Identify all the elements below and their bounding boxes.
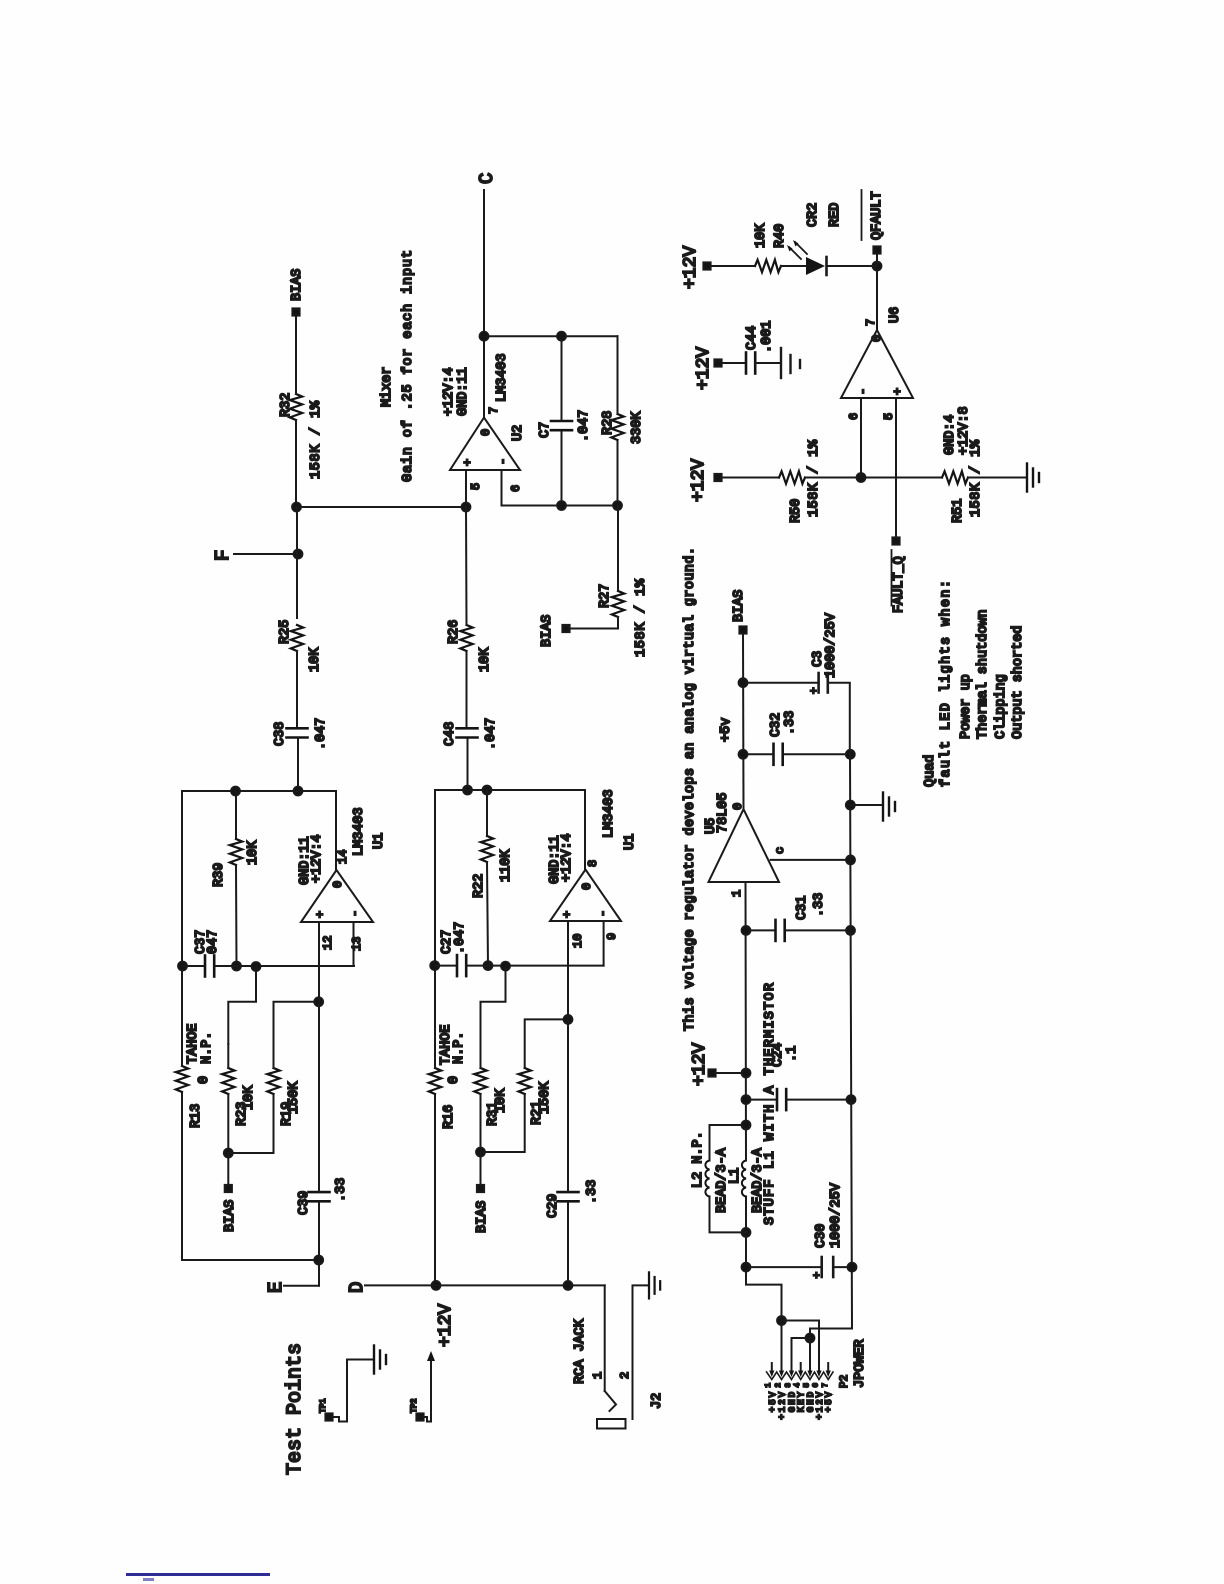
junction top rail2 / C27 line xyxy=(430,961,439,970)
junction C37 line / R23 jog xyxy=(252,962,261,971)
capacitor C30 1000/25V xyxy=(746,1182,852,1278)
junction D net / pin10 net xyxy=(564,1281,573,1290)
svg-text:U6: U6 xyxy=(888,307,903,323)
svg-text:7: 7 xyxy=(487,407,501,414)
resistor R40 10K xyxy=(754,223,788,272)
P2 pin7 stub xyxy=(827,1363,829,1370)
svg-text:Test Points: Test Points xyxy=(284,1343,307,1475)
U6 power text GND:4 +12V:8 xyxy=(943,406,972,455)
svg-text:BIAS: BIAS xyxy=(540,615,555,647)
svg-text:6: 6 xyxy=(813,1383,821,1388)
wire LED to output junction xyxy=(827,265,877,267)
P2 pin arrowheads xyxy=(769,1371,831,1378)
resistor R19 150K xyxy=(267,1068,302,1126)
junction C30/rail xyxy=(742,1263,751,1272)
svg-text:0: 0 xyxy=(870,335,884,342)
svg-text:-: - xyxy=(496,458,510,465)
svg-text:P2: P2 xyxy=(839,1375,851,1388)
svg-text:U2: U2 xyxy=(511,425,526,441)
junction F/chain xyxy=(294,550,303,559)
svg-text:5: 5 xyxy=(469,483,483,490)
junction C27 line / R31 jog xyxy=(501,962,510,971)
svg-text:7: 7 xyxy=(864,319,878,326)
wire C38 to R25 xyxy=(296,651,298,728)
test point TP2 xyxy=(410,1398,424,1420)
wire U1a feedback line xyxy=(182,790,336,792)
resistor R16 0 TAHOE N.P. xyxy=(429,1024,467,1129)
svg-text:7: 7 xyxy=(822,1383,830,1388)
svg-text:Mixer: Mixer xyxy=(380,366,395,407)
wire mixer summing bus (U2 pin 5 net) xyxy=(297,506,467,508)
wire channel2 top rail (left part) xyxy=(434,1094,436,1285)
wire U6 pin6 stub xyxy=(860,398,862,478)
svg-text:R26: R26 xyxy=(447,620,462,644)
ground (J2 shield) xyxy=(649,1272,660,1298)
svg-text:+: + xyxy=(314,911,328,918)
svg-text:FAULT_Q: FAULT_Q xyxy=(892,556,907,613)
resistor R21 150K xyxy=(519,1068,554,1125)
resistor R51 158K / 1% xyxy=(942,439,984,523)
resistor R22 110K xyxy=(472,790,514,966)
svg-text:10K: 10K xyxy=(494,1088,509,1113)
junction stage2 output / C48 chain xyxy=(463,786,472,795)
wire R31 jog xyxy=(481,966,506,1044)
node F xyxy=(212,550,298,561)
svg-text:R27: R27 xyxy=(598,584,613,608)
svg-text:+: + xyxy=(891,388,905,395)
resistor R13 0 TAHOE N.P. xyxy=(176,1023,215,1128)
junction connector ground xyxy=(806,1334,815,1343)
svg-text:+: + xyxy=(809,687,821,694)
svg-text:+12V:4: +12V:4 xyxy=(310,834,325,883)
svg-text:110K: 110K xyxy=(499,849,514,882)
svg-text:+12V: +12V xyxy=(681,246,701,289)
junction top rail / C37 line xyxy=(178,962,187,971)
wire R26 to mixer bus xyxy=(465,507,468,625)
svg-text:E: E xyxy=(265,1282,287,1293)
wire R23 to BIAS junction xyxy=(227,1094,229,1153)
junction stage1 output / C38 chain xyxy=(294,787,303,796)
svg-text:.1: .1 xyxy=(785,1046,800,1062)
wire U1b pin9 stub xyxy=(603,921,605,966)
svg-text:.047: .047 xyxy=(314,718,329,750)
svg-text:C: C xyxy=(476,173,498,184)
wire +12V main rail (connector jog to L1) xyxy=(746,1197,782,1321)
svg-text:.047: .047 xyxy=(453,922,468,954)
op-amp U1 LM3403 (channel 2, pins 8/9/10) xyxy=(550,789,638,921)
junction C7/pin6 net xyxy=(557,501,566,510)
svg-text:-: - xyxy=(348,910,362,917)
svg-text:4: 4 xyxy=(794,1383,802,1388)
svg-text:BIAS: BIAS xyxy=(475,1201,490,1233)
svg-text:9: 9 xyxy=(605,933,619,940)
P2 pin1 stub xyxy=(771,1363,773,1370)
junction C24/ground rail xyxy=(847,1095,856,1104)
svg-text:.047: .047 xyxy=(577,410,592,442)
junction bus / pin5 / R26 xyxy=(462,503,471,512)
junction output/LED xyxy=(873,262,882,271)
op-amp U6 (fault comparator) xyxy=(841,307,913,398)
wire R50 to junction xyxy=(805,477,861,479)
capacitor C48 .047 xyxy=(443,718,499,750)
wire +12V to R50 xyxy=(721,477,779,479)
svg-text:GND:11: GND:11 xyxy=(456,367,471,416)
blue ink tick xyxy=(143,1578,154,1581)
wire U2 pin6 stub xyxy=(502,470,618,506)
svg-text:C44: C44 xyxy=(745,326,760,350)
svg-text:+: + xyxy=(561,911,575,918)
svg-text:RCA JACK: RCA JACK xyxy=(573,1318,588,1384)
junction C3/output xyxy=(739,678,748,687)
wire R31 right lead xyxy=(480,1044,482,1068)
wire U5 output to BIAS xyxy=(742,634,745,809)
svg-text:R40: R40 xyxy=(773,224,788,248)
inductor L2 N.P. BEAD/3-A xyxy=(691,1131,730,1213)
svg-text:10K: 10K xyxy=(308,647,323,672)
svg-text:2: 2 xyxy=(775,1383,783,1388)
wire R19 branch xyxy=(228,1094,273,1153)
op-amp U2 LM3403 (mixer) xyxy=(450,353,526,470)
svg-text:0: 0 xyxy=(197,1076,212,1084)
svg-text:.047: .047 xyxy=(484,718,499,750)
svg-text:JPOWER: JPOWER xyxy=(853,1339,868,1388)
capacitor C29 .33 xyxy=(546,1180,600,1218)
junction C31/rail xyxy=(742,926,751,935)
junction L2/rail xyxy=(742,1121,751,1130)
svg-text:C48: C48 xyxy=(443,722,458,746)
svg-text:C30: C30 xyxy=(814,1224,829,1248)
svg-text:C7: C7 xyxy=(538,422,553,438)
resistor R39 10K xyxy=(212,791,261,966)
svg-text:R25: R25 xyxy=(278,620,293,644)
svg-text:10: 10 xyxy=(571,934,585,948)
wire stage 1 output to C38 xyxy=(297,738,299,792)
svg-text:047: 047 xyxy=(206,930,221,954)
svg-text:R13: R13 xyxy=(189,1104,204,1128)
test point TP1 xyxy=(319,1398,333,1420)
svg-text:0: 0 xyxy=(447,1076,462,1084)
op-amp U1 LM3403 (channel 1, pins 12/13/14) xyxy=(301,807,387,922)
wire pin12 net (C39 to U1a) xyxy=(318,922,320,1192)
svg-text:3: 3 xyxy=(785,1383,793,1388)
blue ink mark bottom of page xyxy=(126,1573,270,1576)
svg-text:BIAS: BIAS xyxy=(223,1200,238,1232)
svg-text:+12V: +12V xyxy=(694,347,714,390)
svg-text:+12V:4: +12V:4 xyxy=(442,367,457,416)
junction R28/R27/pin6 net xyxy=(613,501,622,510)
svg-text:Clipping: Clipping xyxy=(994,674,1009,739)
junction R39 / C37 line xyxy=(232,962,241,971)
svg-text:1000/25V: 1000/25V xyxy=(824,612,839,678)
wire channel1 left rail drop xyxy=(182,1259,319,1261)
svg-text:This voltage regulator develop: This voltage regulator develops an analo… xyxy=(683,547,698,1031)
svg-text:U1: U1 xyxy=(372,833,387,849)
wire R27 to BIAS pad xyxy=(569,617,618,629)
svg-text:0: 0 xyxy=(331,881,345,888)
resistor R32 158K / 1% xyxy=(279,393,324,479)
wire BIAS pad to R32 xyxy=(295,315,297,392)
junction C30/ground rail xyxy=(848,1263,857,1272)
wire P2 pin3 (GND) xyxy=(792,1338,811,1370)
resistor R28 330K (feedback) xyxy=(601,336,645,505)
junction feedback / R39 xyxy=(231,787,240,796)
wire J2 shield line (pin 2) xyxy=(633,1285,649,1419)
svg-text:+12V:4: +12V:4 xyxy=(560,833,575,882)
svg-text:-: - xyxy=(596,910,610,917)
svg-text:R22: R22 xyxy=(472,874,487,898)
svg-text:13: 13 xyxy=(350,937,364,951)
svg-text:U1: U1 xyxy=(623,834,638,850)
svg-text:158K / 1%: 158K / 1% xyxy=(634,578,649,657)
wire pin12 net (E to C39) xyxy=(318,1201,320,1285)
wire channel1 top rail (right part) xyxy=(181,791,183,1066)
wire U2 output to node C xyxy=(483,336,485,417)
svg-text:BIAS: BIAS xyxy=(290,269,305,301)
junction feedback2 / R22 xyxy=(483,786,492,795)
U1a power text GND:11 +12V:4 xyxy=(298,834,325,885)
LED CR2 RED xyxy=(787,203,843,275)
wire R51 to ground xyxy=(968,477,1026,479)
junction R31/R21/BIAS (ch2) xyxy=(476,1148,485,1157)
svg-text:.33: .33 xyxy=(783,711,798,735)
svg-text:-: - xyxy=(856,388,870,395)
resistor R27 158K / 1% xyxy=(598,578,649,657)
op-amp style regulator U5 78L05 xyxy=(704,792,779,882)
junction R22 / C27 line xyxy=(484,961,493,970)
svg-text:R28: R28 xyxy=(601,411,616,435)
svg-text:+5V: +5V xyxy=(768,1390,778,1412)
wire R21 to pin10 net xyxy=(525,1019,568,1068)
svg-text:+12V: +12V xyxy=(689,459,709,502)
svg-text:5: 5 xyxy=(804,1383,812,1388)
wire ground rail xyxy=(850,754,852,1328)
svg-text:.001: .001 xyxy=(760,321,775,353)
svg-text:BEAD/3-A: BEAD/3-A xyxy=(715,1147,730,1213)
wire P2 pin2 (+12V) xyxy=(781,1321,783,1371)
ground (R51) xyxy=(1027,464,1039,492)
svg-text:14: 14 xyxy=(336,850,350,864)
svg-text:J2: J2 xyxy=(650,1393,665,1409)
node BIAS (top rail, channel 1) xyxy=(290,269,305,316)
wire R23 jog xyxy=(228,967,256,1045)
svg-text:+: + xyxy=(812,1272,824,1279)
capacitor C44 .001 xyxy=(721,321,780,374)
wire U6 pin5 stub xyxy=(895,398,897,538)
capacitor C39 .33 xyxy=(297,1178,349,1215)
junction R32/bus xyxy=(292,503,301,512)
wire TP2 to +12V arrow xyxy=(423,1360,431,1422)
svg-text:Output shorted: Output shorted xyxy=(1011,626,1026,739)
svg-text:N.P.: N.P. xyxy=(452,1032,467,1064)
svg-text:78L05: 78L05 xyxy=(716,792,731,833)
svg-text:C24: C24 xyxy=(771,1043,786,1067)
capacitor C32 .33 xyxy=(743,711,850,765)
svg-text:2: 2 xyxy=(618,1372,632,1379)
svg-text:10K: 10K xyxy=(242,1085,257,1110)
svg-text:R16: R16 xyxy=(442,1105,457,1129)
node E xyxy=(265,1282,319,1293)
wire J2 tip line (pin 1) xyxy=(604,1285,606,1391)
ground (C44) xyxy=(781,348,800,378)
svg-text:10K: 10K xyxy=(478,647,493,672)
wire channel2 top rail (right part) xyxy=(434,790,436,1068)
junction C24/rail xyxy=(742,1095,751,1104)
svg-text:TAHOE: TAHOE xyxy=(186,1023,201,1064)
svg-text:F: F xyxy=(212,550,234,561)
svg-text:TP2: TP2 xyxy=(410,1398,419,1413)
svg-text:6: 6 xyxy=(509,485,523,492)
wire L2 to rail junction xyxy=(710,1125,747,1161)
U1b power text GND:11 +12V:4 xyxy=(548,833,575,884)
svg-text:LM3403: LM3403 xyxy=(602,789,617,838)
svg-text:C31: C31 xyxy=(795,896,810,920)
wire junction to R51 xyxy=(861,477,942,479)
svg-text:fault LED lights when:: fault LED lights when: xyxy=(939,580,954,787)
wire U6 output pin7 xyxy=(876,266,878,330)
connector P2 JPOWER face xyxy=(767,1372,834,1380)
resistor R31 10K xyxy=(474,1068,509,1126)
U2 power text +12V:4 GND:11 xyxy=(442,367,471,416)
svg-text:150K: 150K xyxy=(538,1081,553,1114)
node +12V (regulator input) xyxy=(690,1043,746,1086)
wire +12V to R40 xyxy=(710,265,755,267)
svg-text:+12V: +12V xyxy=(690,1043,710,1086)
wire R21 branch xyxy=(481,1094,525,1152)
wire U1a pin13 stub xyxy=(353,922,355,966)
svg-text:R39: R39 xyxy=(212,863,227,887)
node BIAS (channel 2) xyxy=(475,1152,490,1233)
svg-text:Quad: Quad xyxy=(923,755,938,787)
svg-text:C39: C39 xyxy=(297,1191,312,1215)
svg-text:D: D xyxy=(346,1282,368,1293)
junction +12V feed / P2 xyxy=(777,1316,786,1325)
svg-text:BIAS: BIAS xyxy=(732,590,747,622)
wire U2 feedback line xyxy=(484,335,618,337)
wire P2 pin6 (+12V) xyxy=(782,1321,820,1371)
text fault LED note xyxy=(923,580,1026,787)
wire rail L1 to U5 input xyxy=(745,882,748,1161)
capacitor C38 .047 xyxy=(273,718,329,750)
svg-text:330K: 330K xyxy=(630,411,645,444)
wire P2 pin5 (GND) xyxy=(809,1338,811,1370)
capacitor C37 .047 xyxy=(182,930,354,977)
junction C32/ground rail xyxy=(846,750,855,759)
svg-text:RED: RED xyxy=(828,203,843,227)
resistor R23 10K xyxy=(222,1068,257,1126)
resistor R25 10K xyxy=(278,620,323,672)
wire U1a output pin14 xyxy=(335,791,337,870)
node D xyxy=(346,1282,605,1293)
wire R19 to pin12 net xyxy=(274,1002,319,1068)
node FAULT_Q (U6 pin5) xyxy=(892,537,908,613)
wire pin10 net (D to C29) xyxy=(567,1201,569,1285)
svg-text:.33: .33 xyxy=(812,893,827,917)
wire R40 to LED xyxy=(781,265,806,267)
capacitor C3 1000/25V xyxy=(743,612,850,754)
svg-text:+12V: +12V xyxy=(436,1304,456,1347)
node BIAS (channel 1) xyxy=(223,1153,238,1232)
junction output/feedback xyxy=(480,332,489,341)
svg-text:C38: C38 xyxy=(273,722,288,746)
wire pin10 net (C29 to U1b) xyxy=(567,921,569,1192)
svg-text:0: 0 xyxy=(580,883,594,890)
svg-text:8: 8 xyxy=(586,860,600,867)
svg-text:6: 6 xyxy=(847,413,861,420)
svg-text:12: 12 xyxy=(321,936,335,950)
resistor R26 10K xyxy=(447,620,493,672)
svg-text:CR2: CR2 xyxy=(806,203,821,227)
capacitor C27 .047 xyxy=(435,922,604,977)
capacitor C24 .1 xyxy=(746,1043,851,1110)
node +12V (R50 chain) xyxy=(689,459,722,502)
wire R31 to BIAS junction xyxy=(480,1094,482,1152)
wire ground rail to connector xyxy=(810,1329,852,1339)
wire channel2 chain (junction to C48) xyxy=(467,738,469,791)
junction C32/output xyxy=(739,750,748,759)
svg-text:+12V:8: +12V:8 xyxy=(957,406,972,455)
svg-text:C32: C32 xyxy=(769,713,784,737)
wire U5 ground pin c xyxy=(771,847,851,860)
junction left rail / pin12 net xyxy=(314,1256,323,1265)
svg-text:LM3403: LM3403 xyxy=(352,807,367,856)
svg-text:1000/25V: 1000/25V xyxy=(829,1182,844,1248)
svg-text:R51: R51 xyxy=(951,499,966,523)
resistor R50 158K / 1% xyxy=(779,439,822,523)
svg-text:R32: R32 xyxy=(279,393,294,417)
P2 pin4 stub xyxy=(800,1363,802,1370)
P2 pin number labels 1-7 xyxy=(765,1383,830,1388)
junction L2 return xyxy=(742,1228,751,1237)
wire U1b output pin8 xyxy=(584,790,586,870)
ground (regulator) xyxy=(850,793,895,821)
RCA jack J2 tip contact xyxy=(605,1391,616,1411)
junction U5 pin c / ground rail xyxy=(846,856,855,865)
svg-text:Power up: Power up xyxy=(959,674,974,739)
wire channel1 top rail (left part) xyxy=(181,1092,183,1260)
svg-text:1: 1 xyxy=(730,890,744,897)
RCA jack J2 body xyxy=(597,1419,626,1429)
svg-text:+12V: +12V xyxy=(778,1390,788,1420)
P2 pin name labels xyxy=(768,1390,834,1420)
junction R19 / pin12 net xyxy=(314,997,323,1006)
junction R21 / pin10 net xyxy=(564,1015,573,1024)
wire L2 bypass branch xyxy=(710,1197,747,1233)
wire pin6 net to R27 xyxy=(617,506,619,591)
svg-text:L1: L1 xyxy=(728,1168,743,1184)
svg-text:158K / 1%: 158K / 1% xyxy=(309,400,324,479)
svg-text:c: c xyxy=(773,847,787,854)
junction +12V/rail xyxy=(742,1069,751,1078)
node +12V (R40 chain) xyxy=(681,246,711,289)
svg-text:C29: C29 xyxy=(546,1194,561,1218)
svg-text:.33: .33 xyxy=(585,1180,600,1204)
svg-text:10K: 10K xyxy=(754,223,769,248)
junction C31/ground rail xyxy=(846,926,855,935)
+12V arrow (TP2) xyxy=(427,1351,435,1361)
wire U2 pin5 stub xyxy=(465,470,467,507)
svg-text:QFAULT: QFAULT xyxy=(870,191,885,240)
node +12V (C44) xyxy=(694,347,722,390)
junction channel2 rail / D net xyxy=(432,1281,441,1290)
svg-text:10K: 10K xyxy=(246,840,261,865)
wire U1b feedback line xyxy=(435,789,585,791)
inductor L1 BEAD/3-A xyxy=(728,1147,766,1213)
junction R50/R51/pin6 xyxy=(857,473,866,482)
svg-text:1: 1 xyxy=(591,1372,605,1379)
svg-text:+5v: +5v xyxy=(719,718,734,742)
svg-text:GND:4: GND:4 xyxy=(943,414,958,455)
wire R25 to F node xyxy=(296,507,298,618)
